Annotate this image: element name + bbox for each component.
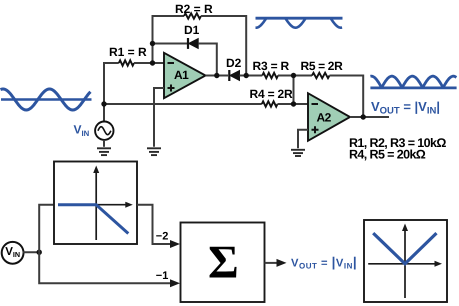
wire A1 output to D2 <box>206 75 229 77</box>
ground at A1 + <box>147 148 161 155</box>
svg-text:R4, R5 = 20kΩ: R4, R5 = 20kΩ <box>349 148 426 162</box>
wire R5 to output node <box>330 76 364 118</box>
A1 minus sign <box>168 62 175 64</box>
absolute value graph box <box>364 220 447 302</box>
A2 minus sign <box>312 103 319 105</box>
transfer function box <box>54 162 137 245</box>
input sine waveform <box>1 89 92 110</box>
junction dot <box>37 250 42 255</box>
wire inverting node up to R2 <box>153 16 185 63</box>
wire VIN to junction <box>23 251 40 253</box>
junction dots <box>101 41 366 120</box>
wire node to D1 <box>153 43 188 45</box>
wire VIN node to R1 <box>104 63 119 104</box>
wire R4 to A2 inverting input <box>278 103 309 105</box>
svg-text:R4 = 2R: R4 = 2R <box>250 87 293 101</box>
ground below VIN source <box>97 148 111 155</box>
resistor R1 <box>119 60 134 65</box>
op-amp A1 <box>164 53 206 98</box>
wire R3 to summing node <box>278 75 294 77</box>
summing block <box>181 223 265 303</box>
wire A2 output <box>350 116 389 118</box>
VIN source wire <box>103 104 105 122</box>
svg-text:R2 = R: R2 = R <box>175 2 213 16</box>
wire D2 to R3 <box>240 75 263 77</box>
VIN source sine symbol <box>98 127 111 135</box>
half-wave rectified waveform (top) <box>256 18 343 28</box>
wire VIN junction to sigma (bottom) <box>39 252 171 283</box>
sigma output arrow <box>265 262 278 264</box>
wire D1 to A1 output <box>198 44 217 76</box>
transfer box horizontal axis <box>58 204 126 206</box>
abs value curve <box>373 233 436 264</box>
svg-text:R3 = R: R3 = R <box>253 59 290 73</box>
full-wave rectified output waveform <box>370 76 456 88</box>
VIN source circle <box>95 122 113 140</box>
VIN source circle (block diagram) <box>2 242 24 264</box>
wire R1 to A1 inverting input <box>134 62 164 64</box>
A1 noninverting wire to ground <box>154 88 164 147</box>
svg-text:Σ: Σ <box>208 237 239 289</box>
diode D2 <box>229 70 239 81</box>
svg-text:R1 = R: R1 = R <box>109 45 147 59</box>
svg-text:D1: D1 <box>184 23 200 37</box>
wire junction up to transfer block <box>39 205 54 253</box>
ground at A2 + <box>291 150 305 156</box>
transfer box vertical axis <box>95 172 97 240</box>
diode D1 <box>188 38 198 49</box>
wire summing node to R5 <box>294 75 313 77</box>
svg-text:−1: −1 <box>156 270 169 282</box>
abs box vertical axis <box>404 230 406 298</box>
op-amp A2 <box>308 93 350 141</box>
A2 plus sign <box>312 126 319 133</box>
resistor R5 <box>312 73 330 78</box>
resistor R4 <box>262 101 278 106</box>
svg-text:−2: −2 <box>156 231 169 243</box>
svg-text:R5 = 2R: R5 = 2R <box>301 59 344 73</box>
resistor R2 <box>184 13 201 18</box>
abs box horizontal axis <box>368 263 435 265</box>
wire R2 to D2 node <box>201 16 246 76</box>
resistor R3 <box>262 73 278 78</box>
A1 plus sign <box>168 85 175 92</box>
transfer curve (half-wave) <box>58 205 128 234</box>
A2 noninverting wire to ground <box>298 130 308 149</box>
svg-text:A2: A2 <box>317 111 332 125</box>
svg-text:A1: A1 <box>174 68 189 82</box>
svg-text:D2: D2 <box>226 56 242 70</box>
VIN source ground wire <box>103 140 105 147</box>
summing node vertical wire <box>293 76 295 105</box>
wire transfer box to sigma <box>137 205 171 244</box>
VIN bottom wire to R4 <box>104 103 262 105</box>
